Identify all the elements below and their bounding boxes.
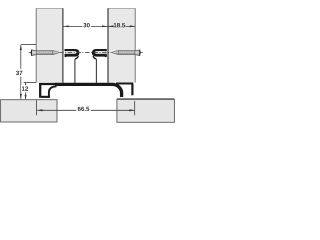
dimension 12 bbox=[21, 82, 36, 99]
dimension 37 bbox=[16, 44, 36, 99]
right end lip bbox=[131, 84, 133, 95]
base panel left bbox=[1, 100, 57, 122]
right fixing screw bbox=[112, 50, 143, 56]
dimension 66.5 bbox=[37, 100, 135, 115]
left screw channel hook bbox=[65, 49, 80, 83]
left fixing screw bbox=[29, 50, 60, 56]
left foot outer wall bbox=[40, 84, 57, 98]
dimension 18.5 bbox=[108, 23, 135, 27]
flange plate with right leg bbox=[55, 84, 122, 97]
left foot inner leg bbox=[49, 86, 57, 97]
right vertical panel bbox=[108, 8, 136, 82]
screw axis centerline bbox=[60, 51, 111, 53]
base panel right bbox=[117, 99, 174, 122]
right ledge bar bbox=[116, 83, 133, 85]
left foot bottom bar bbox=[41, 96, 50, 98]
left vertical panel bbox=[36, 8, 64, 82]
right screw channel hook bbox=[92, 49, 107, 83]
dimension 30 bbox=[63, 23, 107, 27]
profile bottom flange with feet bbox=[40, 84, 133, 98]
